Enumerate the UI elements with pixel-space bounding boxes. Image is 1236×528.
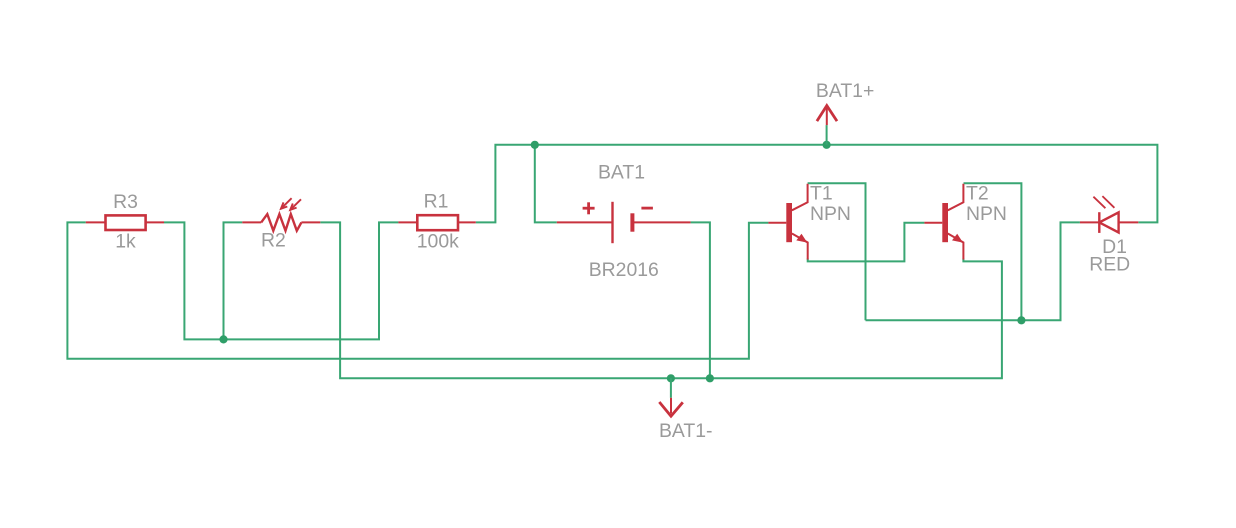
label T2 NPN	[966, 203, 1007, 225]
wire T2.collector drop	[964, 183, 1022, 320]
resistor R1	[398, 215, 475, 230]
LED D1	[1080, 196, 1138, 233]
wire T1.emitter to T2.base	[808, 223, 925, 262]
svg-text:T1: T1	[810, 182, 833, 204]
wire T1.collector drop	[808, 183, 866, 320]
value label BR2016	[589, 259, 659, 281]
power flag BAT1-	[659, 398, 683, 416]
label R3	[113, 191, 138, 213]
wire R2.left drop	[224, 222, 243, 339]
wire net ground rail: R2.right / BAT1- / T2.emitter	[320, 222, 1002, 378]
label R1	[424, 191, 449, 213]
label BAT1	[598, 162, 645, 184]
transistor T2	[924, 184, 963, 260]
svg-text:T2: T2	[966, 182, 989, 204]
resistor R3	[86, 215, 164, 230]
wire net R3.right / R2.left / R1.left	[164, 222, 398, 339]
wire BAT1- stem	[670, 378, 672, 398]
value label 100k	[417, 231, 459, 253]
svg-text:BAT1: BAT1	[598, 162, 645, 184]
wire battery positive drop	[535, 145, 557, 223]
svg-text:NPN: NPN	[810, 203, 851, 225]
svg-text:R3: R3	[113, 191, 138, 213]
junction dot battery positive	[531, 141, 539, 149]
junction dot BAT1+ tap	[823, 141, 831, 149]
junction dot battery negative	[706, 374, 714, 382]
label T2	[966, 182, 989, 204]
svg-text:BAT1-: BAT1-	[659, 420, 713, 442]
power flag BAT1+	[817, 106, 837, 126]
photoresistor R2	[242, 198, 320, 231]
svg-text:BAT1+: BAT1+	[816, 80, 874, 102]
svg-text:R2: R2	[261, 230, 286, 252]
wire net top bus: R1.right / BAT1+ / D1.anode	[476, 145, 1158, 223]
label BAT1-	[659, 420, 713, 442]
svg-text:R1: R1	[424, 191, 449, 213]
wire BAT1+ stem	[826, 125, 828, 145]
junction dot R2.left/R3.right	[219, 335, 227, 343]
svg-text:100k: 100k	[417, 231, 459, 253]
wire collector rail to D1.cathode	[866, 222, 1080, 320]
junction dot BAT1- tap	[667, 374, 675, 382]
svg-text:RED: RED	[1089, 253, 1130, 275]
label T1	[810, 182, 833, 204]
label D1	[1102, 236, 1127, 258]
wire net R3.left to T1.base (bottom rail)	[67, 222, 768, 358]
label T1 NPN	[810, 203, 851, 225]
svg-text:NPN: NPN	[966, 203, 1007, 225]
label R2	[261, 230, 286, 252]
svg-text:BR2016: BR2016	[589, 259, 659, 281]
transistor T1	[768, 184, 807, 260]
value label 1k	[115, 230, 136, 252]
junction dot collectors/D1	[1017, 316, 1025, 324]
value label RED	[1089, 253, 1130, 275]
wire battery negative drop	[691, 222, 710, 378]
svg-text:1k: 1k	[115, 230, 136, 252]
battery BAT1	[557, 202, 691, 243]
label BAT1+	[816, 80, 874, 102]
